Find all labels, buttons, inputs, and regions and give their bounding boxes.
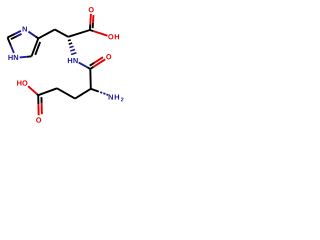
imidazole double bond C4=C5 [32, 38, 39, 56]
label ring N [23, 26, 27, 31]
amide double bond C=O [90, 67, 93, 69]
Glu side COOH double bond C=O (down) [37, 95, 39, 104]
imidazole bond N1-C2 [11, 46, 14, 53]
bond CH2-His alphaC [55, 30, 68, 37]
imidazole bond C5-N1 [27, 55, 32, 57]
hashed wedge Glu alphaC to NH2 [91, 89, 99, 92]
label NH2 [109, 95, 124, 102]
bond amide C - Glu alphaC [89, 69, 92, 89]
label O (His C=O) [89, 7, 94, 12]
amide bond N-C [79, 63, 88, 68]
hashed wedge His alphaC to amide N [68, 39, 71, 42]
Glu side bond HO-C [28, 86, 37, 94]
label O (Glu side C=O) [36, 117, 41, 122]
His COOH bond C-OH [90, 30, 94, 31]
label ring HN [8, 55, 18, 60]
chemical structure: glutamyl-histidine dipeptide [0, 0, 130, 130]
imidazole double bond N3=C2 [15, 31, 21, 34]
bond His alphaC - COOH carbon [68, 30, 90, 37]
label amide HN [68, 58, 78, 63]
imidazole bond N3-C4 [28, 32, 35, 37]
label OH (His COOH) [108, 34, 119, 39]
His COOH double bond C=O (up) [89, 24, 91, 30]
label amide O [106, 54, 111, 59]
bond Glu alphaC - beta CH2 [75, 89, 91, 99]
label HO (Glu side) [17, 80, 27, 85]
bond C4-CH2 bridge [38, 30, 55, 39]
bond gamma CH2 - side COOH carbon [38, 88, 57, 95]
bond beta CH2 - gamma CH2 [57, 88, 75, 98]
